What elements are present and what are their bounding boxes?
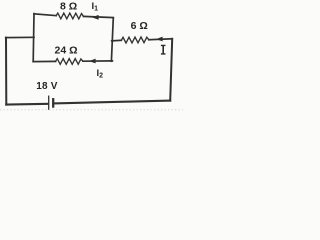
battery B1 18V positive plate (long) bbox=[48, 96, 50, 109]
svg-text:6 Ω: 6 Ω bbox=[131, 20, 148, 32]
resistor R2 24 ohm zigzag bbox=[56, 59, 83, 65]
wire: top branch from 8 ohm to right rail bbox=[84, 16, 114, 17]
wire: mid-left connector from left rail to parallel-section left rail bbox=[6, 36, 34, 38]
wire: middle branch lead-in to 6 ohm bbox=[112, 39, 122, 42]
wire: outer right rail bbox=[170, 39, 172, 101]
wire: outer left rail bbox=[5, 38, 7, 105]
wire: bottom wire, left of battery bbox=[6, 103, 48, 106]
svg-text:24 Ω: 24 Ω bbox=[55, 44, 78, 56]
wire: bottom branch from 24 ohm to right rail bbox=[83, 60, 113, 62]
current arrow I1 on top branch (points left) bbox=[92, 15, 99, 20]
wire: from 6 ohm to outer right rail bbox=[149, 38, 172, 41]
svg-text:I2: I2 bbox=[97, 68, 104, 80]
resistor R3 6 ohm zigzag bbox=[121, 37, 149, 43]
wire: parallel-section left rail bbox=[32, 14, 35, 62]
svg-text:18 V: 18 V bbox=[36, 81, 58, 92]
wire: top branch lead-in to 8 ohm bbox=[34, 14, 56, 16]
battery B1 18V negative plate (short thick) bbox=[52, 99, 54, 106]
svg-text:8 Ω: 8 Ω bbox=[60, 1, 77, 13]
current arrow I on 6 ohm branch (points left) bbox=[156, 37, 163, 42]
current arrow I2 on bottom branch (points left) bbox=[89, 59, 96, 64]
resistor R1 8 ohm zigzag bbox=[56, 13, 83, 19]
wire: bottom wire, right of battery bbox=[54, 101, 170, 104]
faint scan artifact dotted line at bottom bbox=[0, 109, 183, 111]
label: current I bbox=[161, 45, 166, 55]
wire: bottom branch lead-in to 24 ohm bbox=[33, 60, 55, 62]
svg-text:I1: I1 bbox=[92, 1, 99, 13]
wire: parallel-section right rail bbox=[111, 18, 113, 61]
